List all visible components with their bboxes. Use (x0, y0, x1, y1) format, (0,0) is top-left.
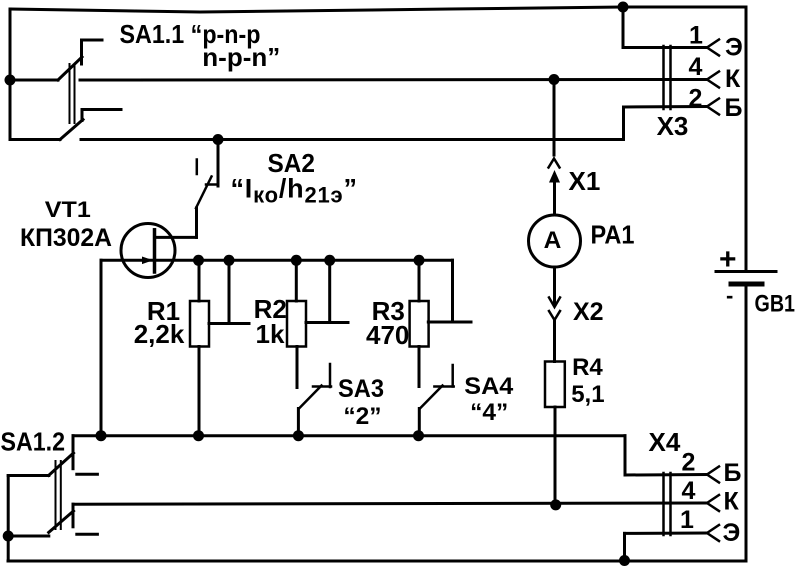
svg-text:Э: Э (725, 34, 743, 62)
svg-text:470: 470 (366, 320, 409, 350)
svg-text:R4: R4 (572, 354, 603, 381)
svg-text:2,2k: 2,2k (134, 319, 185, 349)
svg-text:VT1: VT1 (45, 197, 91, 222)
svg-text:5,1: 5,1 (571, 381, 604, 408)
svg-text:Э: Э (723, 519, 741, 547)
svg-text:-: - (726, 283, 733, 308)
svg-text:X1: X1 (569, 166, 601, 196)
svg-text:A: A (544, 227, 562, 254)
svg-text:SA3: SA3 (338, 375, 384, 403)
svg-text:КП302А: КП302А (20, 224, 112, 252)
svg-text:1k: 1k (256, 319, 285, 349)
svg-text:Б: Б (725, 94, 743, 122)
svg-text:SA4: SA4 (464, 373, 514, 400)
svg-text:SA1.2: SA1.2 (1, 429, 66, 457)
svg-text:К: К (724, 488, 740, 516)
svg-text:PA1: PA1 (591, 220, 635, 250)
svg-text:“2”: “2” (343, 403, 381, 430)
svg-text:1: 1 (680, 506, 694, 534)
svg-text:К: К (725, 65, 741, 93)
svg-text:“Iко/h21э”: “Iко/h21э” (231, 174, 358, 208)
svg-text:4: 4 (689, 53, 703, 81)
svg-text:+: + (719, 243, 737, 276)
svg-text:4: 4 (682, 477, 696, 505)
svg-text:X4: X4 (649, 427, 681, 457)
svg-text:Б: Б (724, 459, 742, 487)
svg-text:1: 1 (689, 22, 703, 50)
svg-text:GB1: GB1 (755, 291, 796, 318)
svg-text:2: 2 (682, 449, 696, 477)
svg-text:“4”: “4” (470, 399, 508, 426)
svg-text:2: 2 (689, 85, 703, 113)
svg-text:X2: X2 (573, 298, 604, 326)
svg-text:X3: X3 (657, 111, 689, 141)
svg-text:n-p-n”: n-p-n” (202, 42, 280, 72)
